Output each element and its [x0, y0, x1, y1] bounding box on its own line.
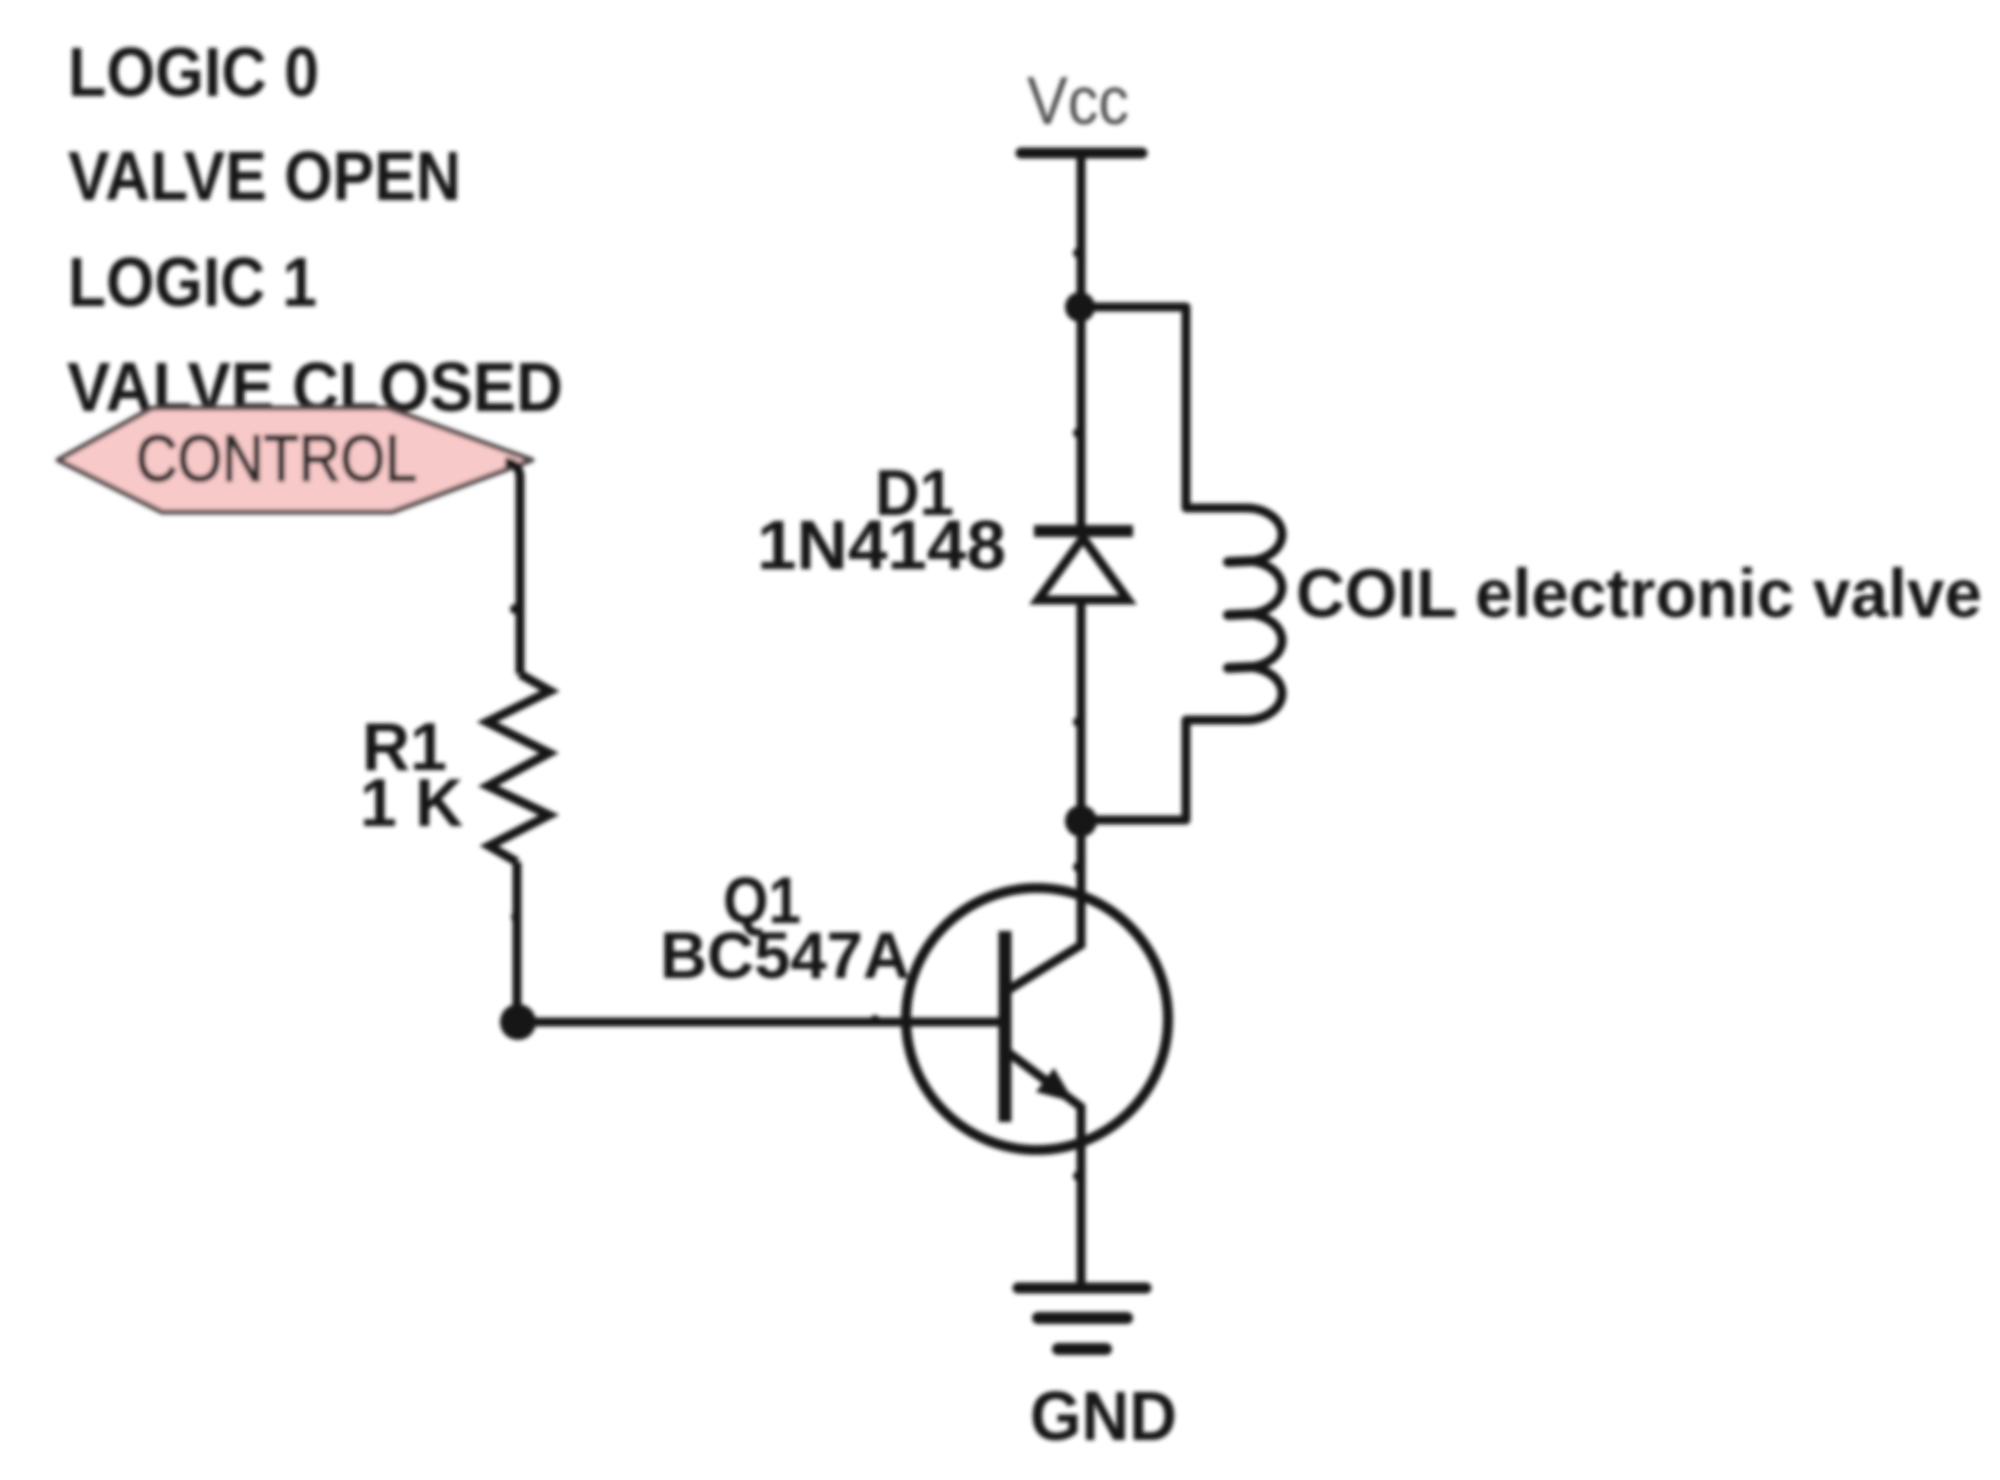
svg-text:1 K: 1 K: [360, 765, 463, 841]
transistor Q1 base bar: [999, 931, 1012, 1122]
inductor COIL loop curls: [1228, 561, 1251, 562]
pin tick Vcc wire: [1073, 248, 1083, 258]
pin tick base wire: [870, 1015, 880, 1025]
svg-text:LOGIC 1: LOGIC 1: [68, 243, 317, 321]
pin tick diode bottom: [1073, 717, 1083, 727]
diode D1 triangle: [1038, 538, 1128, 600]
wire CONTROL to R1 top: [505, 462, 520, 674]
pin tick emitter: [1073, 1171, 1083, 1181]
transistor Q1 emitter line: [1005, 1050, 1081, 1288]
node junction base (dot): [500, 1004, 536, 1040]
ground symbol GND: [1018, 1288, 1146, 1349]
net flag CONTROL (hexagon): [58, 408, 532, 512]
svg-text:COIL electronic valve: COIL electronic valve: [1296, 555, 1982, 632]
svg-text:Vcc: Vcc: [1027, 63, 1129, 139]
wire R1 bottom lead: [513, 862, 522, 1022]
svg-text:GND: GND: [1030, 1377, 1177, 1455]
pin tick R1 bottom: [511, 912, 521, 922]
svg-text:BC547A: BC547A: [660, 918, 910, 992]
transistor Q1 emitter arrow: [1036, 1068, 1074, 1102]
wire top node to coil branch: [1080, 307, 1246, 508]
svg-text:LOGIC 0: LOGIC 0: [68, 33, 319, 111]
transistor Q1 circle: [906, 888, 1168, 1150]
wire Vcc to top node: [1077, 153, 1086, 307]
resistor R1 (zigzag): [487, 674, 550, 862]
wire top node to diode cathode: [1077, 307, 1086, 531]
svg-text:VALVE OPEN: VALVE OPEN: [68, 137, 461, 215]
wire diode anode to bottom node: [1077, 600, 1086, 821]
node top junction (dot): [1065, 292, 1095, 322]
inductor COIL (arcs): [1246, 508, 1282, 720]
wire coil bottom to bottom node: [1081, 720, 1246, 820]
wire base node to Q1 base: [518, 1018, 1005, 1027]
pin tick R1 top: [510, 604, 520, 614]
transistor Q1 collector line: [1005, 822, 1081, 992]
pin tick collector: [1073, 862, 1083, 872]
diode D1 cathode bar: [1034, 525, 1133, 537]
power symbol Vcc: [1021, 63, 1142, 153]
pin tick diode top: [1073, 428, 1083, 438]
svg-text:CONTROL: CONTROL: [136, 421, 417, 495]
node bottom junction (dot): [1065, 805, 1097, 837]
svg-text:1N4148: 1N4148: [757, 506, 1006, 584]
